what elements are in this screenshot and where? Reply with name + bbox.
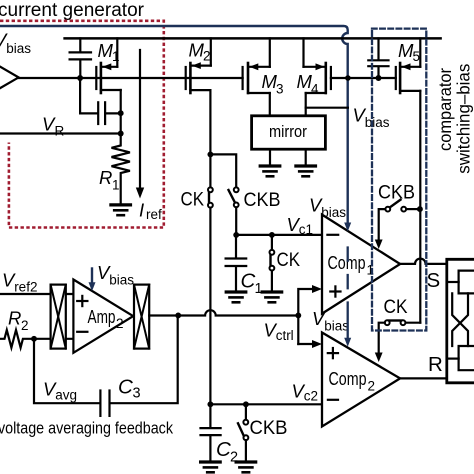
label Vbias (Comp2) <box>312 308 349 334</box>
latch internal: top gate <box>448 281 459 283</box>
svg-text:C: C <box>216 438 231 461</box>
svg-text:voltage averaging feedback: voltage averaging feedback <box>0 419 174 438</box>
svg-text:C: C <box>118 376 133 399</box>
latch internal: cross coupling <box>452 293 468 346</box>
label M5 <box>398 40 420 64</box>
feedback path: Vavg wire and C3 <box>34 339 99 403</box>
label Vc1 <box>287 214 313 237</box>
wire to ground <box>271 271 273 291</box>
svg-text:avg: avg <box>55 388 77 403</box>
transistor M3 <box>243 38 270 115</box>
svg-text:ref: ref <box>146 207 162 222</box>
svg-text:2: 2 <box>203 49 211 64</box>
svg-text:c1: c1 <box>299 222 313 237</box>
resistor R1 <box>112 134 130 203</box>
node: Vc1 <box>233 232 239 238</box>
label R1 <box>99 167 120 193</box>
ground (C2) <box>201 462 221 472</box>
transistor M4 (mirrored) <box>304 38 331 115</box>
svg-text:3: 3 <box>133 386 141 402</box>
label Vbias (at navy line) <box>353 105 390 131</box>
label M2 <box>189 40 211 64</box>
capacitor C2 <box>201 404 221 460</box>
op-amp Amp2 <box>73 280 133 353</box>
svg-text:ref2: ref2 <box>14 280 37 295</box>
svg-text:bias: bias <box>365 115 390 130</box>
Vbias label (top left) <box>0 30 31 56</box>
svg-text:Comp: Comp <box>328 252 366 273</box>
ground (CKB reset) <box>236 462 256 472</box>
Iref arrow <box>139 50 141 189</box>
label M3 <box>262 71 284 97</box>
switch CK (M2 drain to Vc2 line, closed) <box>208 187 213 207</box>
svg-text:R: R <box>99 167 112 188</box>
wire to ground <box>245 440 247 460</box>
label C3 <box>118 376 141 402</box>
red dashed box (current generator boundary) <box>0 21 164 228</box>
ground (under R1) <box>111 205 131 215</box>
label Vbias (Amp2) <box>97 262 134 288</box>
switch CK (Comp2 bias, closed) <box>405 322 420 324</box>
comparator Comp2 <box>322 333 400 427</box>
switch CKB (Comp1 bias, open) <box>406 208 420 210</box>
wire to CKB switch branch <box>210 154 236 187</box>
transistor M5 <box>396 38 421 322</box>
wire: CKB switch down to Vc1 node <box>235 207 237 235</box>
ground (mirror right) <box>296 166 316 176</box>
svg-text:CK: CK <box>384 296 408 318</box>
transistor M1 <box>96 38 120 133</box>
node: Vavg tap <box>31 336 37 342</box>
navy arrow into Comp1 top edge <box>344 223 351 232</box>
svg-text:mirror: mirror <box>269 123 307 141</box>
svg-text:R: R <box>428 353 443 376</box>
chopper box 2 (Amp2 output) <box>134 285 149 349</box>
node: M5 gate <box>376 75 382 81</box>
svg-text:R: R <box>55 124 65 139</box>
label Iref <box>139 200 162 223</box>
ground (mirror left) <box>260 166 280 176</box>
label Vctrl <box>264 320 294 344</box>
navy dashed box (comparator switching-bias) <box>372 29 426 331</box>
svg-text:1: 1 <box>255 281 263 297</box>
wire Vref2 <box>0 293 73 295</box>
wire: Amp2 output to Vctrl with hop over CK line <box>149 310 298 315</box>
capacitor (M1 gate cap to rail) <box>70 38 91 78</box>
top supply rail <box>65 37 441 40</box>
label M1 <box>98 40 120 64</box>
node: M2 drain / switch branch <box>207 151 213 157</box>
node: Vbias on navy line <box>345 75 351 81</box>
node: Amp2 output / feedback <box>175 312 181 318</box>
node: Vc1 / CK discharge <box>269 232 275 238</box>
resistor R2 + lower input wire <box>0 330 73 348</box>
svg-text:Comp: Comp <box>329 368 367 389</box>
wire: Comp2 output to latch R <box>400 377 445 379</box>
MOS capacitor (between M1 gate node and VR node) <box>80 78 121 124</box>
wire VR <box>0 132 121 134</box>
capacitor C1 <box>226 235 247 290</box>
transistor M2 <box>186 38 211 187</box>
svg-text:1: 1 <box>112 178 120 193</box>
label Vc2 <box>292 381 318 404</box>
wire: mirror top to navy line <box>306 107 348 109</box>
svg-text:R: R <box>8 308 21 329</box>
svg-text:bias: bias <box>109 272 134 287</box>
svg-text:CKB: CKB <box>244 189 281 211</box>
label Vavg <box>43 379 77 403</box>
svg-text:c2: c2 <box>304 389 318 404</box>
svg-text:CK: CK <box>277 249 301 271</box>
label Vref2 <box>2 270 37 295</box>
wire Vc2 to Comp2 minus input <box>210 403 322 405</box>
wire: Comp1 output to latch S with hop <box>400 259 445 264</box>
switch CK (C1 reset, closed) <box>271 235 273 250</box>
svg-text:bias: bias <box>6 41 31 56</box>
wire: CK switch down to Vc2 node <box>209 208 211 405</box>
ground (C1) <box>226 292 246 302</box>
capacitor (M5 gate cap) <box>368 38 388 78</box>
wire: amp1 output / gate rail to M3 <box>19 77 243 79</box>
label M4 <box>297 71 320 97</box>
svg-text:5: 5 <box>413 49 421 64</box>
switch CKB (to Vc1 node, open) <box>229 187 239 207</box>
svg-text:bias: bias <box>321 205 346 220</box>
svg-text:current generator: current generator <box>0 0 145 21</box>
node: cap / M1 drain <box>118 110 124 116</box>
node: Vc2 / C2 <box>207 401 213 407</box>
label R2 <box>8 308 29 334</box>
navy arrow into Comp2 top edge <box>344 338 351 347</box>
svg-text:CK: CK <box>181 189 205 211</box>
svg-text:S: S <box>427 269 441 292</box>
label VR <box>42 114 65 139</box>
svg-text:2: 2 <box>116 316 124 331</box>
svg-text:switching–bias: switching–bias <box>453 64 473 174</box>
amp1 output triangle (clipped at left) <box>0 67 19 89</box>
latch internal: bottom gate <box>448 358 459 360</box>
node: M5 drain / CKB bias switch <box>417 206 423 212</box>
label C2 <box>216 438 238 466</box>
rotated label: comparator switching-bias <box>435 64 474 174</box>
navy dashed Vbias continuation to Comp2 <box>347 248 349 340</box>
mirror ground legs <box>269 149 271 164</box>
node: VR / R1 <box>118 131 124 137</box>
svg-text:CKB: CKB <box>378 182 415 204</box>
svg-text:Amp: Amp <box>88 306 116 327</box>
svg-text:4: 4 <box>311 82 319 97</box>
Vctrl branches to comparator + inputs <box>298 289 313 344</box>
svg-text:3: 3 <box>276 82 284 97</box>
chopper box 1 (Amp2 input) <box>51 285 66 349</box>
svg-text:I: I <box>139 200 144 221</box>
SR latch box <box>447 259 474 383</box>
svg-text:CKB: CKB <box>250 417 288 439</box>
mirror box <box>252 116 326 149</box>
comparator Comp1 <box>322 215 400 314</box>
switch CKB (C2 reset, open) <box>245 404 247 420</box>
svg-text:ctrl: ctrl <box>276 328 294 343</box>
navy Vbias arrow into Amp2 <box>91 269 93 285</box>
label C1 <box>241 270 263 298</box>
svg-text:2: 2 <box>368 379 376 394</box>
ground (CK reset) <box>262 292 282 302</box>
svg-text:comparator: comparator <box>435 68 455 151</box>
navy Vbias distribution line (top) with hop over rail <box>0 26 348 224</box>
svg-text:C: C <box>241 270 256 293</box>
svg-text:bias: bias <box>324 318 349 333</box>
capacitor C3 <box>100 391 109 416</box>
svg-text:2: 2 <box>21 318 29 333</box>
wire: M4 gate to navy Vbias node and to M5 gate <box>331 77 396 79</box>
wire Vc1 to Comp1 minus input <box>236 234 322 236</box>
svg-text:1: 1 <box>112 49 120 64</box>
node: amp1 out / M1 gate <box>77 75 83 81</box>
label Vbias (Comp1) <box>309 195 346 221</box>
node: Vctrl <box>295 312 301 318</box>
node: Vc2 / CKB <box>243 401 249 407</box>
